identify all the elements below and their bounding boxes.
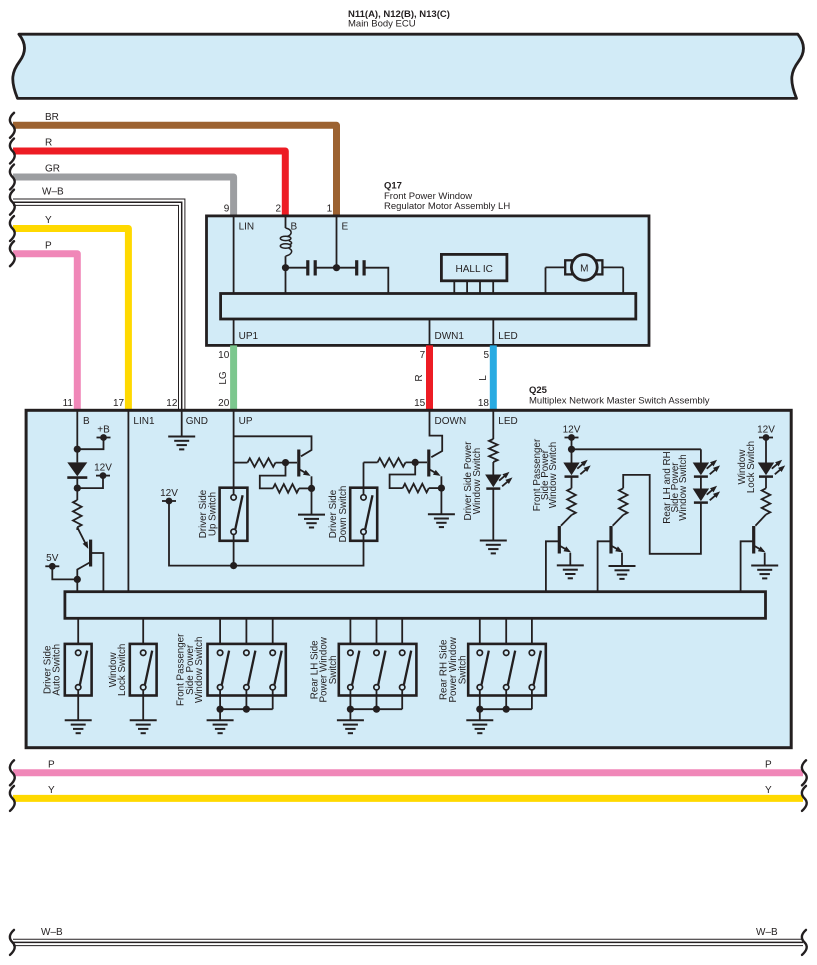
torn end of wire Y (10, 216, 15, 241)
switch Front Passenger Side Power Window Switch #1 (217, 650, 222, 655)
Q17 pin LED (492, 319, 494, 345)
terminal 5V (45, 565, 59, 567)
switch Rear RH Side Power Window Switch #2 (504, 650, 509, 655)
wire GR (13, 177, 234, 217)
HALL IC U1 (441, 254, 507, 280)
wire Q4 base to bus (546, 541, 559, 591)
svg-text:UP: UP (239, 416, 253, 427)
wire 12V common (169, 501, 364, 566)
switch SW-DOWN (361, 495, 366, 500)
ground Rear RH Side Power Window Switch (466, 719, 493, 721)
capacitor C2 (337, 267, 357, 269)
junction 12V branch (568, 446, 575, 453)
terminal 12V (window lock) (759, 437, 773, 439)
svg-text:Window Switch: Window Switch (548, 442, 559, 508)
junction emitter node UP (308, 485, 315, 492)
svg-text:1: 1 (327, 203, 333, 214)
Driver Side Auto Switch box (65, 644, 92, 696)
wire Y (bottom) (13, 795, 803, 802)
torn end of wire GR (10, 165, 15, 190)
Q25 Multiplex Network Master Switch Assembly box (26, 410, 791, 747)
wires bus to Rear LH Side Power Window Switch (349, 618, 351, 644)
svg-text:BR: BR (45, 112, 59, 123)
Q17 inner bus rectangle (221, 294, 636, 320)
svg-text:LIN: LIN (239, 221, 255, 232)
resistor R2 (UP base) (234, 462, 248, 464)
inductor coil L1 (286, 228, 292, 237)
svg-text:Q25: Q25 (529, 385, 548, 396)
switch SW-UP (231, 495, 236, 500)
wires Front Passenger Side Power Window Switch commons (219, 690, 221, 709)
wire W-B from ECU to Q25 pin 12 (13, 202, 182, 411)
svg-text:11: 11 (63, 398, 74, 409)
wire branch to rear LEDs (572, 448, 701, 450)
resistor R6 (LED) (489, 439, 498, 462)
diode D1 (67, 462, 87, 476)
svg-text:E: E (342, 221, 349, 232)
switch Rear LH Side Power Window Switch #1 (348, 650, 353, 655)
resistor R5 (DOWN base-emitter) (390, 462, 416, 488)
wire B pin to coil (285, 216, 287, 228)
svg-text:GR: GR (45, 164, 60, 175)
Q17 pin UP1 (233, 319, 235, 345)
switch Driver Side Auto Switch #1 (76, 650, 81, 655)
svg-text:12V: 12V (94, 462, 112, 473)
junction base node DOWN (412, 459, 419, 466)
svg-text:R: R (414, 374, 425, 381)
Driver Side Down Switch box (350, 488, 377, 541)
motor M1 (546, 266, 566, 268)
svg-text:12V: 12V (757, 424, 775, 435)
resistor R4 (DOWN base) (364, 461, 378, 463)
svg-text:Lock Switch: Lock Switch (746, 441, 757, 493)
terminal 12V (switch common) (162, 500, 176, 502)
Q17 pin DWN1 (429, 319, 431, 345)
wire coil to junction (285, 256, 287, 293)
wire R (13, 151, 285, 217)
svg-text:+B: +B (97, 424, 110, 435)
wires Rear RH Side Power Window Switch commons (479, 690, 481, 709)
ground Q6 emitter (751, 565, 778, 567)
svg-text:2: 2 (275, 203, 281, 214)
switch Front Passenger Side Power Window Switch #3 (270, 650, 275, 655)
junction diode/12V (74, 485, 81, 492)
LED D5 rear (700, 476, 702, 488)
Window Lock Switch box (130, 644, 157, 696)
wire down-switch top (363, 462, 365, 494)
wire LED to resistor (571, 476, 573, 488)
svg-text:LIN1: LIN1 (133, 416, 155, 427)
wire LIN pin to inner bus (233, 216, 235, 294)
junction base node UP (282, 459, 289, 466)
terminal 12V (B section) (96, 475, 110, 477)
svg-text:W–B: W–B (42, 187, 64, 198)
wire Window Lock Switch to ground (142, 690, 144, 720)
Rear LH Side Power Window Switch box (339, 644, 417, 696)
junction under E (333, 264, 340, 271)
resistor R9 (window lock) (762, 488, 771, 514)
svg-text:L: L (478, 375, 489, 381)
wire Y (13, 229, 128, 412)
terminal +B (97, 437, 111, 439)
wire LED pin down (492, 410, 494, 439)
resistor R8 (rear) (619, 488, 628, 515)
svg-text:7: 7 (420, 350, 426, 361)
svg-text:M: M (580, 263, 588, 274)
svg-text:Y: Y (48, 785, 55, 796)
svg-text:W–B: W–B (756, 927, 778, 938)
wire switch bottom to common (233, 535, 235, 566)
svg-text:17: 17 (113, 398, 125, 409)
svg-text:5: 5 (483, 350, 489, 361)
wires bus to Rear RH Side Power Window Switch (479, 618, 481, 644)
svg-text:P: P (48, 760, 55, 771)
svg-text:LG: LG (218, 371, 229, 385)
ground Rear LH Side Power Window Switch (337, 719, 364, 721)
svg-text:W–B: W–B (41, 927, 63, 938)
junction up-switch common (230, 562, 237, 569)
LED D2 driver side power window switch (492, 462, 494, 475)
transistor Q6 (window lock) (755, 515, 766, 526)
svg-text:LED: LED (498, 331, 517, 342)
wire C2 to inner bus (364, 268, 388, 294)
terminal 12V (front passenger) (565, 437, 579, 439)
switch Rear RH Side Power Window Switch #3 (529, 650, 534, 655)
svg-text:5V: 5V (46, 553, 59, 564)
svg-text:Main Body ECU: Main Body ECU (348, 18, 416, 29)
LED D4 rear (700, 449, 702, 462)
wire Q5 base to bus (598, 541, 611, 591)
switch Rear LH Side Power Window Switch #2 (374, 650, 379, 655)
svg-text:P: P (765, 760, 772, 771)
LED D3 front passenger (563, 463, 579, 476)
wire diode to resistor (76, 478, 78, 500)
svg-text:Switch: Switch (328, 655, 339, 684)
junction B/+B (74, 446, 81, 453)
junction under coil (282, 264, 289, 271)
Q25 internal bus bar (65, 592, 766, 619)
svg-text:15: 15 (414, 398, 426, 409)
junction 5V/emitter (74, 576, 81, 583)
svg-text:UP1: UP1 (239, 331, 259, 342)
svg-text:9: 9 (224, 203, 230, 214)
resistor R1 (B section) (73, 500, 82, 527)
svg-text:LED: LED (498, 416, 517, 427)
wire LIN1 pin to bus (127, 410, 129, 591)
wire B pin down (76, 410, 78, 462)
svg-text:Y: Y (45, 215, 52, 226)
wire rear LEDs loop to resistor (623, 475, 701, 554)
Rear RH Side Power Window Switch box (468, 644, 546, 696)
wire 12V down (765, 438, 767, 463)
HALL IC pins (453, 281, 455, 294)
torn end of wire W-B (10, 190, 15, 215)
wire LED to resistor (765, 476, 767, 488)
wire L from Q17 pin 5 to Q25 pin 18 (490, 345, 497, 410)
Q17 Front Power Window Regulator Motor Assembly LH box (207, 216, 650, 346)
switch Rear RH Side Power Window Switch #1 (477, 650, 482, 655)
wire LG from Q17 pin 10 to Q25 pin 20 (230, 345, 237, 410)
Driver Side Up Switch box (220, 488, 248, 541)
ground Q5 emitter (609, 565, 636, 567)
svg-text:Switch: Switch (458, 655, 469, 684)
svg-text:Up Switch: Up Switch (208, 492, 219, 536)
ground Q3 emitter (428, 513, 455, 515)
ground Front Passenger Side Power Window Switch (207, 719, 234, 721)
svg-text:12V: 12V (563, 424, 581, 435)
wire P (bottom) (13, 769, 803, 776)
svg-text:GND: GND (186, 416, 208, 427)
ground GND pin (168, 436, 195, 438)
wires bus to Front Passenger Side Power Window Switch (219, 618, 221, 644)
wire to bus (76, 579, 78, 591)
wire DOWN pin to transistor Q3 collector (430, 410, 443, 457)
ground Q4 emitter (557, 564, 584, 566)
resistor R3 (UP base-emitter) (260, 463, 286, 489)
ground Window Lock Switch (130, 719, 157, 721)
svg-text:DOWN: DOWN (435, 416, 467, 427)
transistor Q5 (rear) (613, 515, 624, 526)
torn end of wire P (10, 241, 15, 266)
svg-text:Regulator Motor Assembly LH: Regulator Motor Assembly LH (384, 201, 510, 212)
capacitor C1 (286, 267, 308, 269)
svg-text:DWN1: DWN1 (435, 331, 465, 342)
svg-text:18: 18 (478, 398, 490, 409)
svg-text:Auto Switch: Auto Switch (52, 644, 63, 696)
wire Driver Side Auto Switch to ground (77, 690, 79, 720)
svg-text:P: P (45, 240, 52, 251)
wire 12V down (571, 438, 573, 463)
wire LED to ground (492, 488, 494, 540)
ground Q2 emitter (298, 514, 325, 516)
wires Rear LH Side Power Window Switch commons (349, 690, 351, 709)
transistor Q1 (B section) (89, 540, 92, 567)
svg-text:Window Switch: Window Switch (194, 637, 205, 703)
transistor Q2 (UP) (297, 450, 300, 477)
svg-text:B: B (83, 416, 90, 427)
svg-text:10: 10 (218, 350, 230, 361)
Front Passenger Side Power Window Switch box (208, 644, 286, 696)
ground LED (480, 540, 507, 542)
LED D6 window lock (758, 463, 774, 476)
svg-text:20: 20 (218, 398, 230, 409)
ground Driver Side Auto Switch (65, 719, 92, 721)
torn end of wire BR (10, 113, 15, 138)
wire BR (13, 125, 337, 217)
svg-text:Multiplex Network Master Switc: Multiplex Network Master Switch Assembly (529, 396, 710, 407)
transistor Q4 (front passenger) (561, 515, 572, 526)
wire UP branch to transistor Q2 collector (234, 436, 312, 456)
transistor Q3 (DOWN) (427, 450, 430, 477)
svg-text:HALL IC: HALL IC (455, 264, 492, 275)
wire emitter to ground (440, 488, 442, 514)
wires bus to Driver Side Auto Switch (77, 618, 79, 644)
wire UP pin down to switch (233, 410, 235, 494)
svg-text:Window Switch: Window Switch (472, 448, 483, 514)
svg-text:12V: 12V (160, 488, 178, 499)
wire W-B (bottom) (13, 939, 803, 946)
resistor R7 (front passenger) (567, 488, 576, 515)
switch Window Lock Switch #1 (141, 650, 146, 655)
svg-text:Down Switch: Down Switch (338, 486, 349, 543)
svg-text:B: B (291, 221, 298, 232)
svg-text:12: 12 (166, 398, 178, 409)
Main Body ECU band N11/N12/N13 (13, 34, 804, 98)
svg-text:R: R (45, 138, 52, 149)
junction emitter node DOWN (438, 485, 445, 492)
wires bus to Window Lock Switch (142, 618, 144, 644)
wire E pin down (336, 216, 338, 268)
wire GND pin down (181, 410, 183, 436)
svg-text:Lock Switch: Lock Switch (117, 644, 128, 696)
wire R from Q17 pin 7 to Q25 pin 15 (426, 345, 433, 410)
svg-text:Y: Y (765, 785, 772, 796)
svg-text:Window Switch: Window Switch (678, 454, 689, 520)
switch Front Passenger Side Power Window Switch #2 (244, 650, 249, 655)
wire emitter to ground (311, 488, 313, 514)
wire Q6 base to bus (741, 541, 754, 591)
torn end of wire R (10, 139, 15, 164)
switch Rear LH Side Power Window Switch #3 (400, 650, 405, 655)
wire P (13, 254, 77, 411)
